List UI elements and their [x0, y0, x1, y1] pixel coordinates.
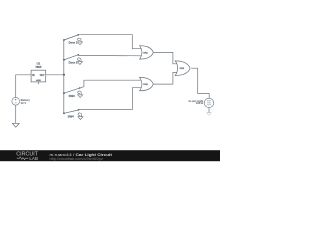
- switch SW1 "Door 1": [63, 34, 82, 45]
- wire OR3 output to lamp: [191, 68, 209, 98]
- svg-text:OR2: OR2: [143, 84, 148, 86]
- footer CircuitLab logo: [16, 152, 38, 161]
- svg-text:LAB: LAB: [29, 156, 38, 161]
- svg-text:100 Ω: 100 Ω: [196, 101, 204, 105]
- svg-text:7805: 7805: [35, 65, 41, 69]
- svg-text:OUT: OUT: [40, 75, 45, 77]
- or-gate OR1: [140, 46, 154, 59]
- U1 GND stub: [37, 82, 39, 84]
- wire vertical supply bus: [63, 40, 65, 113]
- node bus-regulator junction: [63, 74, 65, 76]
- svg-text:Door 2: Door 2: [69, 60, 78, 64]
- wire battery top to regulator IN: [16, 75, 31, 98]
- ground under battery: [12, 123, 19, 127]
- svg-text:OR1: OR1: [143, 52, 148, 54]
- svg-text:Door 1: Door 1: [69, 41, 78, 45]
- svg-text:http://circuitlab.com/c/2sm5/2: http://circuitlab.com/c/2sm5/2pz: [50, 157, 104, 161]
- wire lamp bottom to ground: [208, 108, 210, 113]
- lamp L1 In-car Light: [204, 98, 213, 107]
- switch SW4: [63, 109, 83, 119]
- wire OR1 output to OR3 input A: [153, 52, 177, 63]
- battery V1: [12, 97, 20, 105]
- switch SW2 "Door 2": [63, 54, 82, 65]
- svg-text:SW3: SW3: [69, 94, 76, 98]
- wire SW4 output to OR2 input B: [79, 88, 142, 110]
- voltage regulator U1 7805: [31, 70, 46, 82]
- switch SW3: [63, 87, 84, 98]
- wire SW3 output to OR2 input A: [84, 80, 142, 87]
- svg-text:SW4: SW4: [68, 115, 75, 119]
- wire SW2 output to OR1 input B: [78, 54, 141, 56]
- wire regulator OUT to bus: [46, 74, 64, 76]
- wire SW1 output to OR1 input A: [78, 35, 141, 49]
- footer bar: [0, 150, 220, 161]
- svg-text:12 V: 12 V: [21, 101, 27, 105]
- or-gate OR3: [175, 61, 190, 76]
- wire OR2 output to OR3 input B: [153, 72, 177, 84]
- or-gate OR2: [140, 77, 154, 90]
- wire battery bottom to ground: [15, 105, 17, 123]
- svg-text:GND: GND: [36, 80, 41, 82]
- svg-text:OR3: OR3: [180, 68, 185, 70]
- svg-text:IN: IN: [32, 75, 35, 77]
- ground under lamp: [207, 113, 212, 116]
